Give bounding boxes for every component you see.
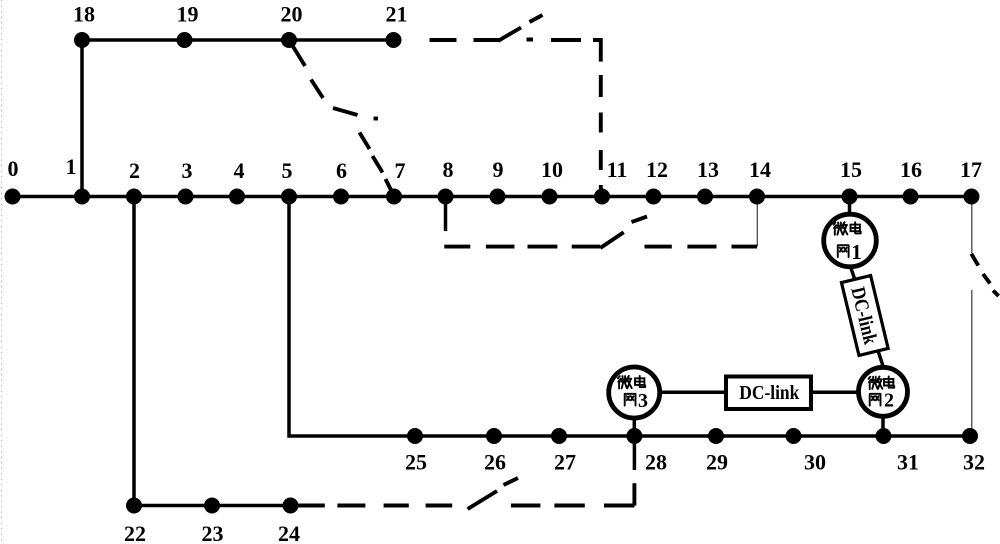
tie switch 24-28 vertical dash to node 28 xyxy=(632,483,636,505)
microgrid 1 circle xyxy=(824,214,877,267)
svg-text:16: 16 xyxy=(900,157,922,182)
node 23 xyxy=(204,498,220,514)
wire thin node14 to tie line xyxy=(756,197,758,247)
DC-link box rotated between microgrid1 and microgrid2 xyxy=(841,276,888,356)
svg-text:28: 28 xyxy=(645,450,667,475)
svg-text:2: 2 xyxy=(884,390,894,412)
node 13 xyxy=(697,189,713,205)
node 26 xyxy=(486,428,502,444)
svg-text:10: 10 xyxy=(541,157,563,182)
svg-text:29: 29 xyxy=(706,450,728,475)
wire stub node28 down xyxy=(633,436,637,470)
tie switch 17-32 open blade dashes xyxy=(971,254,998,296)
tie switch 20-7 pivot dot xyxy=(374,117,379,121)
tie switch 20-7 open blade xyxy=(333,108,358,115)
wire microgrid1 to microgrid2 via DC-link xyxy=(850,265,883,366)
wire branch 1-18 xyxy=(80,40,84,197)
node 28 xyxy=(626,428,642,444)
microgrid1 text 微电 / 网1 xyxy=(834,222,862,264)
tie switch line 20 to 7 : upper dashes xyxy=(292,44,324,98)
left-edge scan artifact xyxy=(1,0,3,544)
wire top bus 18-21 xyxy=(82,38,394,42)
microgrid 3 circle xyxy=(609,367,660,418)
wire microgrid3 to DC-link box xyxy=(659,390,726,394)
microgrid2 text 微电 / 网2 xyxy=(869,377,895,412)
wire stub microgrid2 to node31 xyxy=(881,416,885,437)
microgrid3 text 微电 / 网3 xyxy=(618,376,648,412)
svg-text:DC-link: DC-link xyxy=(739,382,800,404)
node 7 xyxy=(386,189,402,205)
tie switch line 21 to 11 : horizontal dashes xyxy=(430,38,582,42)
svg-text:9: 9 xyxy=(493,157,504,182)
wire stub microgrid3 to node28 xyxy=(633,417,637,436)
node 25 xyxy=(407,428,423,444)
svg-text:30: 30 xyxy=(804,450,826,475)
wire thin switch to node32 xyxy=(971,290,973,436)
node 10 xyxy=(542,189,558,205)
svg-text:31: 31 xyxy=(897,450,919,475)
tie switch 21-11 open blade xyxy=(498,15,543,41)
tie switch 21-11 corner dash xyxy=(593,40,601,62)
svg-text:14: 14 xyxy=(749,157,771,182)
svg-text:3: 3 xyxy=(182,158,193,183)
svg-text:25: 25 xyxy=(405,450,427,475)
node 20 xyxy=(281,32,297,48)
node 4 xyxy=(229,189,245,205)
svg-text:11: 11 xyxy=(607,157,628,182)
wire stub node8 down xyxy=(444,197,448,232)
svg-text:17: 17 xyxy=(960,157,982,182)
svg-text:0: 0 xyxy=(8,156,19,181)
wire DC-link box to microgrid2 xyxy=(811,390,859,394)
node 2 xyxy=(126,189,142,205)
tie switch 21-11 vertical dashes to node 11 xyxy=(599,75,603,196)
svg-text:8: 8 xyxy=(443,157,454,182)
node 27 xyxy=(551,428,567,444)
svg-text:32: 32 xyxy=(963,450,985,475)
svg-text:4: 4 xyxy=(234,158,245,183)
node 31 xyxy=(876,428,892,444)
svg-text:26: 26 xyxy=(484,450,506,475)
svg-text:15: 15 xyxy=(840,157,862,182)
microgrid 2 circle xyxy=(859,367,908,416)
svg-text:1: 1 xyxy=(851,240,862,264)
tie switch 8-14 open blade xyxy=(600,217,647,249)
wire stub node15 to microgrid1 xyxy=(848,197,852,216)
node 3 xyxy=(178,189,194,205)
svg-text:23: 23 xyxy=(202,521,224,544)
svg-text:21: 21 xyxy=(386,2,408,27)
wire branch 5-25-32 xyxy=(289,197,970,437)
svg-text:3: 3 xyxy=(638,390,648,412)
node 1 xyxy=(74,189,90,205)
tie switch line 24 to 28 : dashes xyxy=(297,504,635,508)
node 32 xyxy=(962,428,978,444)
svg-text:7: 7 xyxy=(395,158,406,183)
tie switch 20-7 lower dashes xyxy=(360,133,393,194)
wire branch 2-22 xyxy=(132,197,136,506)
node 19 xyxy=(177,32,193,48)
node 22 xyxy=(126,498,142,514)
node 24 xyxy=(283,498,299,514)
node 0 xyxy=(5,189,21,205)
wire thin node17 to switch xyxy=(971,197,973,254)
svg-text:2: 2 xyxy=(129,158,140,183)
node 12 xyxy=(646,189,662,205)
tie switch line 8 to 14 : dashes xyxy=(444,245,757,249)
node 18 xyxy=(74,32,90,48)
node 9 xyxy=(490,189,506,205)
svg-text:1: 1 xyxy=(66,154,77,179)
svg-text:12: 12 xyxy=(646,157,668,182)
svg-text:24: 24 xyxy=(278,521,300,544)
DC-link box horizontal xyxy=(726,377,811,410)
node 16 xyxy=(903,189,919,205)
node 17 xyxy=(964,189,980,205)
svg-text:27: 27 xyxy=(554,450,576,475)
svg-text:6: 6 xyxy=(336,158,347,183)
node 11 xyxy=(594,189,610,205)
svg-text:13: 13 xyxy=(697,157,719,182)
node 14 xyxy=(749,189,765,205)
node 6 xyxy=(333,189,349,205)
node 15 xyxy=(842,189,858,205)
node 8 xyxy=(438,189,454,205)
node 5 xyxy=(281,189,297,205)
wire bus 22-24 xyxy=(134,504,291,508)
node 21 xyxy=(386,32,402,48)
svg-text:18: 18 xyxy=(73,2,95,27)
node 30 xyxy=(786,428,802,444)
node 29 xyxy=(708,428,724,444)
tie switch 24-28 open blade xyxy=(468,478,518,509)
svg-text:19: 19 xyxy=(177,2,199,27)
svg-text:22: 22 xyxy=(124,521,146,544)
svg-text:20: 20 xyxy=(281,2,303,27)
wire main bus 0-17 xyxy=(13,195,972,199)
svg-text:5: 5 xyxy=(282,158,293,183)
